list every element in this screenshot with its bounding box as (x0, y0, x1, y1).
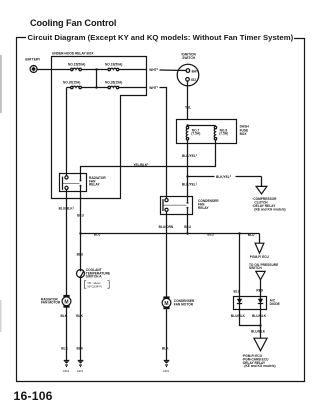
wire (81, 87, 108, 89)
svg-text:RED: RED (256, 288, 263, 292)
svg-text:YEL/BLK1: YEL/BLK1 (133, 163, 149, 167)
svg-text:SWITCH: SWITCH (182, 56, 195, 60)
svg-text:BLU: BLU (94, 232, 101, 236)
dash fuse box (177, 120, 237, 144)
svg-text:YEL: YEL (185, 106, 191, 110)
wire fuse No.8 down then left (YEL/BLK) to radiator fan relay coil (81, 140, 216, 174)
svg-text:BLU/BLK1: BLU/BLK1 (59, 206, 75, 210)
svg-text:FAN MOTOR: FAN MOTOR (41, 301, 61, 305)
svg-text:SWITCH: SWITCH (249, 266, 262, 270)
fuse No.26 (15A) (105, 81, 122, 89)
wire relay coil to BLU node (80, 192, 82, 270)
wire radiator fan motor to ground (BLK) (66, 307, 68, 360)
svg-text:BLK/YEL2: BLK/YEL2 (216, 175, 232, 179)
svg-text:BOX: BOX (240, 132, 248, 136)
svg-text:BLU: BLU (207, 232, 214, 236)
svg-text:M: M (164, 301, 168, 307)
fuse No.8 (7.5A) (214, 126, 228, 140)
svg-text:BLU/BLK: BLU/BLK (231, 314, 246, 318)
svg-text:BLU: BLU (248, 233, 255, 237)
node A/C diode drop junction (238, 232, 240, 234)
svg-text:SWITCH A: SWITCH A (86, 275, 102, 279)
node fuse bus junction row1 (95, 68, 97, 70)
svg-text:BLU/BLK: BLU/BLK (252, 314, 267, 318)
wire fuse No.26 to box edge (119, 87, 147, 89)
svg-text:RELAY: RELAY (89, 183, 100, 187)
svg-text:G201: G201 (77, 369, 84, 373)
condenser fan motor (162, 296, 171, 309)
svg-text:BLK: BLK (61, 346, 68, 350)
svg-text:BATTERY: BATTERY (25, 58, 41, 62)
radiator fan motor (62, 295, 71, 308)
wire fuse No.19 to box edge (119, 69, 147, 71)
svg-text:Circuit Diagram (Except KY and: Circuit Diagram (Except KY and KQ models… (28, 33, 294, 42)
svg-text:NO.19(50A): NO.19(50A) (105, 62, 122, 66)
battery (25, 58, 41, 73)
svg-text:Cooling Fan Control: Cooling Fan Control (30, 18, 116, 28)
ignition switch (177, 53, 199, 86)
svg-text:IG2: IG2 (191, 78, 196, 82)
svg-text:G201: G201 (163, 369, 170, 373)
arrow to PGM-FI ECU (255, 243, 264, 253)
arrow to compressor clutch relay (256, 186, 267, 194)
svg-text:DIODE: DIODE (270, 302, 280, 306)
svg-text:UNDER-HOOD RELAY BOX: UNDER-HOOD RELAY BOX (52, 51, 94, 55)
ground G201 radiator fan motor (63, 361, 70, 374)
svg-text:NO.20(15A): NO.20(15A) (63, 81, 80, 85)
svg-text:BLU: BLU (77, 252, 84, 256)
fuse No.19 (50A) (105, 62, 122, 70)
condenser fan relay (161, 197, 193, 215)
node fuse feed junction (188, 125, 216, 127)
svg-text:NO.15(50A): NO.15(50A) (68, 62, 85, 66)
wire fuse No.20 down to radiator fan relay (66, 88, 68, 174)
diode 1 (237, 297, 242, 311)
coolant temperature switch A (77, 252, 85, 277)
fuse No.7 (7.5A) (186, 126, 200, 139)
wire battery to fuse No.15 (37, 69, 71, 71)
svg-text:(KE and KG models): (KE and KG models) (244, 364, 275, 368)
fuse No.15 (50A) (68, 62, 85, 70)
svg-text:BLU: BLU (184, 225, 191, 229)
scan noise streaks (0, 55, 2, 113)
wire condenser relay to motor (BLU/ORN) (166, 214, 168, 298)
svg-text:BLK: BLK (77, 346, 84, 350)
ground G201 condenser fan motor (163, 361, 170, 374)
wire RED to diode (260, 280, 262, 296)
wire BLU down to A/C diode (239, 234, 241, 297)
svg-text:RELAY: RELAY (198, 206, 209, 210)
wire junction row1 to row2 (96, 70, 98, 88)
svg-text:BLU/BLK: BLU/BLK (251, 330, 266, 334)
wire branch BLK/YEL2 to compressor clutch relay (188, 176, 215, 178)
svg-text:(7.5A): (7.5A) (219, 132, 228, 136)
wire condenser fan motor to ground (BLK) (166, 309, 168, 360)
svg-text:BAT: BAT (192, 69, 198, 73)
svg-text:BLU: BLU (234, 289, 241, 293)
svg-text:BLK/YEL1: BLK/YEL1 (182, 182, 198, 186)
svg-text:PGM-FI ECU: PGM-FI ECU (250, 255, 270, 259)
node compressor branch junction (186, 175, 188, 177)
svg-text:BLK: BLK (76, 314, 83, 318)
border frame (17, 38, 305, 382)
svg-text:16-106: 16-106 (14, 389, 53, 403)
diode 2 (258, 297, 263, 311)
wire relay to radiator fan motor (BLU/BLK1) (66, 192, 68, 297)
svg-text:FAN MOTOR: FAN MOTOR (174, 302, 194, 306)
svg-text:(7.5A): (7.5A) (191, 132, 200, 136)
svg-text:G201: G201 (63, 369, 70, 373)
wire corner to PGM-FI ECU arrow (259, 234, 261, 244)
fuse No.20 (15A) (63, 81, 81, 89)
switch note (84, 281, 109, 289)
svg-text:BLK: BLK (162, 346, 169, 350)
svg-text:(KE and KG models): (KE and KG models) (254, 207, 285, 211)
under-hood relay box outline (52, 57, 147, 199)
svg-text:BLK: BLK (61, 314, 68, 318)
arrow to PGM-FI ECU / PGM-CARB ECU / delay relay (254, 338, 267, 351)
svg-text:NO.26(15A): NO.26(15A) (105, 81, 122, 85)
svg-text:90°C(194°F): 90°C(194°F) (87, 285, 102, 289)
wire IG2 to dash fuse box (YEL) (187, 81, 189, 120)
svg-text:M: M (64, 299, 68, 305)
svg-text:BLU/ORN: BLU/ORN (159, 225, 174, 229)
wire fuse No.7 down (BLK/YEL1) (187, 140, 189, 177)
node BLU bus left junction (79, 232, 81, 234)
radiator fan relay (60, 174, 87, 192)
wire (81, 69, 108, 71)
wire condenser relay coil to BLU bus (187, 214, 189, 234)
A/C diode box (234, 297, 267, 310)
ground G201 coolant switch (77, 361, 84, 374)
wire BLU bus (81, 233, 260, 235)
svg-text:BLU: BLU (77, 214, 84, 218)
svg-text:BLK/YEL1: BLK/YEL1 (182, 154, 198, 158)
wire coolant switch to ground (BLK) (80, 278, 82, 361)
